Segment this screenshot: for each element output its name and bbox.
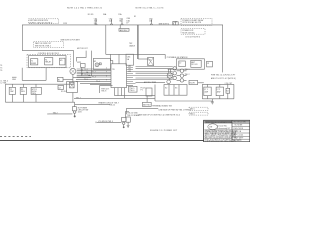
svg-text:AND LTG CKT 1 & 2 (NOTE 6): AND LTG CKT 1 & 2 (NOTE 6) [211,77,236,80]
svg-text:NOTE 1 & 2 TML 1 THRU 4 NO 21: NOTE 1 & 2 TML 1 THRU 4 NO 21 [67,8,103,10]
svg-text:3: 3 [106,71,107,73]
svg-text:1: 1 [106,67,107,69]
svg-text:ELECTRICAL SCHEMATIC DWG: ELECTRICAL SCHEMATIC DWG [206,121,233,124]
svg-text:TML 2: TML 2 [185,74,190,76]
svg-text:J3: J3 [207,63,209,65]
svg-text:LINE SIDE OF PWR SW TML 1 THRU: LINE SIDE OF PWR SW TML 1 THRU 4 [159,110,191,112]
svg-text:RELAY: RELAY [45,61,52,64]
svg-text:K5 RLY: K5 RLY [61,91,68,93]
svg-text:XFMR: XFMR [31,63,37,65]
svg-text:RCVR 115V AC: RCVR 115V AC [182,31,195,34]
svg-text:DWG 7491D: DWG 7491D [234,128,244,130]
svg-text:TML 1: TML 1 [185,69,190,71]
svg-text:J2: J2 [179,63,181,65]
svg-text:PWR TML 1 & 2 (P) NO 21 PT: PWR TML 1 & 2 (P) NO 21 PT [211,74,236,76]
svg-text:W3: W3 [128,71,131,73]
svg-text:GND: GND [12,79,17,81]
svg-text:SC NONE: SC NONE [235,125,244,127]
svg-text:40W: 40W [204,91,208,93]
svg-text:NOTE 3 & 4 TML 5 + 6 LTG: NOTE 3 & 4 TML 5 + 6 LTG [136,8,164,10]
svg-text:HEATER CIRCUIT TML 7: HEATER CIRCUIT TML 7 [99,102,119,105]
svg-text:ANT RLY: ANT RLY [143,104,151,107]
svg-text:TML 10 GND: TML 10 GND [127,112,138,114]
svg-text:T1-5: T1-5 [84,79,88,81]
svg-text:NAVY DEPT: NAVY DEPT [234,136,243,139]
svg-text:5: 5 [106,75,107,77]
svg-text:C2: C2 [58,87,60,89]
svg-text:REV 2 A: REV 2 A [235,130,242,133]
svg-text:T1-1: T1-1 [84,69,88,71]
svg-text:RLY K3: RLY K3 [191,64,197,66]
svg-text:40W: 40W [217,91,221,93]
svg-text:CONTROL BOX (NOTE 2): CONTROL BOX (NOTE 2) [38,53,60,55]
svg-text:LTG CKT: LTG CKT [225,83,233,85]
svg-text:TML 6: TML 6 [190,113,195,115]
svg-text:BU SHIPS: BU SHIPS [234,140,243,142]
svg-text:CONTR NOBS-00000 DWG 7491-D SH: CONTR NOBS-00000 DWG 7491-D SH 1 OF 1 [205,140,237,142]
svg-text:LTG CKT NOTE 6: LTG CKT NOTE 6 [186,36,200,38]
svg-text:PORTABLE GE STATION: PORTABLE GE STATION [167,56,188,59]
svg-text:B2: B2 [94,61,96,63]
svg-text:TML 12: TML 12 [109,104,115,106]
svg-text:P1: P1 [141,90,143,92]
svg-text:MTR: MTR [77,62,82,64]
svg-text:TML 6: TML 6 [129,90,134,92]
svg-text:APP 4-12-44: APP 4-12-44 [234,133,244,136]
svg-text:ANT RLY: ANT RLY [120,29,128,32]
svg-text:S1: S1 [134,16,136,18]
svg-text:SEE NOTE 4: SEE NOTE 4 [159,24,170,26]
svg-text:WD 7491-D SH1: WD 7491-D SH1 [234,122,247,124]
svg-text:NO FD: NO FD [88,14,94,16]
svg-text:TML 2: TML 2 [53,112,58,114]
svg-text:T1-4: T1-4 [92,77,96,79]
svg-text:K4: K4 [148,59,150,61]
svg-text:TML 5: TML 5 [190,109,195,111]
svg-text:TML 8: TML 8 [101,91,106,93]
svg-text:L2 TML: L2 TML [0,83,6,85]
svg-text:CKTS 115V AC 60 CPS: CKTS 115V AC 60 CPS [182,21,202,24]
svg-text:Schenectady NY: Schenectady NY [217,127,231,130]
svg-text:S4: S4 [226,91,228,93]
svg-text:T1-2: T1-2 [92,72,96,74]
svg-text:RCVR: RCVR [190,82,196,84]
svg-text:ANT RLY PWR: ANT RLY PWR [144,81,157,84]
svg-text:J1: J1 [172,24,174,26]
svg-text:LINE SIDE OF LTG SW TML 5 & 6: LINE SIDE OF LTG SW TML 5 & 6 SEE NOTE 3… [138,115,180,117]
svg-text:LTG SW S6 TML 9: LTG SW S6 TML 9 [98,121,113,123]
svg-text:S3: S3 [175,87,177,89]
svg-text:TML 7: TML 7 [76,97,81,99]
svg-text:MOTOR CKT: MOTOR CKT [77,48,89,50]
svg-text:T6: T6 [0,70,2,72]
svg-text:SEE NOTE 4 TML 2: SEE NOTE 4 TML 2 [35,46,51,48]
svg-text:T1-3: T1-3 [84,74,88,76]
svg-text:FIGURE 7-3. POWER CKT: FIGURE 7-3. POWER CKT [150,130,178,132]
svg-text:SEE NOTE 5 FOR MTR: SEE NOTE 5 FOR MTR [61,39,81,41]
svg-text:M1: M1 [60,60,63,62]
svg-text:CABLE: CABLE [129,45,136,48]
svg-text:SUPPLY CIRCUIT (NOTE 1): SUPPLY CIRCUIT (NOTE 1) [29,22,52,24]
svg-text:T1-6: T1-6 [96,81,100,83]
svg-text:S2: S2 [165,87,167,89]
svg-text:B1: B1 [58,79,60,81]
svg-text:TERMINAL BOARD TB3: TERMINAL BOARD TB3 [152,105,172,108]
svg-text:7: 7 [106,79,107,81]
